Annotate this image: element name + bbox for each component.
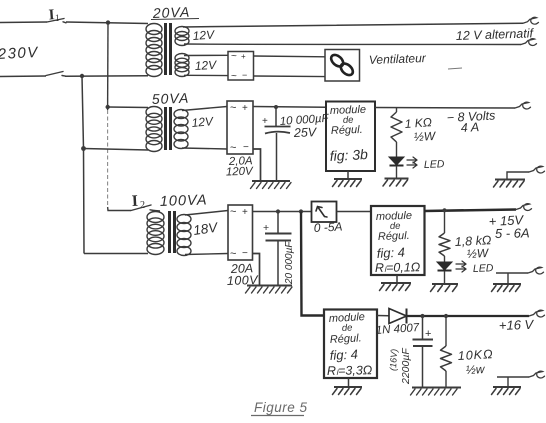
- resistor R2 lead top: [444, 211, 446, 234]
- transformer T3 core: [170, 211, 175, 253]
- svg-text:120V: 120V: [226, 166, 255, 179]
- wire B2 minus to ground: [253, 149, 261, 181]
- wire U1 output to terminal (row2 -8V rail): [375, 107, 515, 110]
- value label 1/2 W (R2): [466, 246, 490, 261]
- svg-text:½W: ½W: [466, 246, 490, 261]
- transformer T3 secondary winding (18V): [177, 215, 191, 256]
- wire T2 secondary to rectifier B2 top: [182, 107, 227, 111]
- svg-text:+: +: [262, 116, 268, 127]
- value label 2200uF (C3, rotated): [400, 348, 412, 385]
- bridge rectifier B2: [227, 101, 253, 154]
- switch I2: [131, 205, 154, 211]
- node junction bus1/row2: [81, 146, 86, 151]
- svg-text:4 A: 4 A: [460, 120, 479, 135]
- node junction L2/bus1: [80, 74, 84, 78]
- capacitor C3 (2200uF 16V): [413, 328, 434, 346]
- svg-text:½w: ½w: [465, 362, 486, 377]
- wire rail3 down to row4 module U3: [301, 212, 324, 316]
- capacitor C3 lead top: [422, 316, 424, 339]
- terminal chassis row4: [529, 371, 545, 378]
- module U3 (module de Regul. fig: 4 RL=3,3): [324, 310, 377, 379]
- value label 18V (T3): [192, 219, 220, 237]
- resistor R3 lead top: [445, 316, 447, 346]
- wire U2 to ground: [396, 275, 398, 283]
- svg-text:−: −: [242, 70, 247, 80]
- wire 12V AC line b (to right edge): [184, 43, 521, 46]
- LED D2 emission arrows: [407, 157, 417, 168]
- ground G6 (under U2): [380, 283, 412, 291]
- svg-text:Ventilateur: Ventilateur: [369, 51, 427, 67]
- ground G1 (under B2 and C1): [251, 181, 292, 189]
- svg-text:fig: 4: fig: 4: [376, 245, 405, 261]
- terminal -8V output: [515, 102, 531, 109]
- wire LED D3 to ground: [444, 271, 446, 284]
- LED D3: [437, 262, 452, 271]
- wire B2 plus to module U1 (row2 positive rail): [253, 106, 326, 109]
- value label 10KOhm (R3): [457, 347, 493, 363]
- wire bus from L1 down (x=108): [107, 23, 109, 110]
- svg-text:12V: 12V: [192, 27, 215, 43]
- capacitor C1 lead top: [275, 107, 277, 126]
- value label 1/2 W (R1): [413, 129, 437, 144]
- resistor R3 (10KOhm 1/2w): [441, 346, 452, 371]
- svg-text:Rₗ=3,3Ω: Rₗ=3,3Ω: [327, 363, 373, 378]
- terminal chassis row2: [529, 166, 545, 173]
- value label 12V (T1 S2): [194, 58, 217, 73]
- label Ventilateur: [369, 51, 462, 69]
- svg-text:½W: ½W: [413, 129, 437, 144]
- wire R3 to ground: [445, 371, 447, 387]
- module U2 (module de Regul. fig: 4 RL=0,1): [371, 206, 425, 275]
- value label 25V (C1): [293, 125, 318, 140]
- capacitor C1 (10 000uF 25V): [262, 116, 291, 134]
- wire T1 S2 to rectifier B1 (bottom): [184, 74, 228, 76]
- value label 1/2 w (R3): [465, 362, 486, 377]
- transformer T1 label 20VA: [151, 4, 199, 21]
- svg-text:~: ~: [230, 248, 236, 260]
- svg-text:2: 2: [140, 200, 145, 211]
- net label +15V: [488, 212, 524, 229]
- fan (ventilateur) M1: [325, 50, 360, 82]
- value label 1N 4007 (D1): [375, 322, 420, 337]
- node junction C3/rail4: [420, 314, 424, 318]
- switch I1 pole a: [47, 19, 66, 23]
- net label -8 Volts: [446, 108, 495, 125]
- wire B3 minus to ground: [253, 254, 260, 286]
- wire B1 to fan (top): [254, 55, 326, 58]
- ground G2 (under U1): [333, 179, 363, 187]
- terminal chassis row3: [528, 267, 544, 274]
- wire B3 plus to breaker (row3 rail): [253, 211, 312, 213]
- wire R2 to LED D3: [444, 256, 446, 262]
- capacitor C2 (20 000uF): [263, 222, 292, 241]
- svg-text:~: ~: [230, 206, 236, 218]
- ground G11 (row4 right): [492, 387, 522, 395]
- svg-text:Régul.: Régul.: [378, 230, 410, 243]
- wire mains line L1 (230V top, left segment): [0, 21, 47, 24]
- node junction C1/rail2: [274, 105, 278, 109]
- wire 12V AC line a (to right edge): [183, 23, 523, 27]
- transformer T3 primary winding: [147, 212, 164, 255]
- wire B1 to fan (bottom): [254, 75, 326, 78]
- svg-text:2200µF: 2200µF: [400, 348, 412, 385]
- capacitor C2 lead top: [277, 212, 279, 234]
- svg-text:Rₗ=0,1Ω: Rₗ=0,1Ω: [375, 260, 421, 275]
- wire U1 to ground: [347, 171, 349, 179]
- wire bus1 to T3 primary bottom: [84, 253, 148, 255]
- svg-text:5 - 6A: 5 - 6A: [495, 225, 530, 241]
- capacitor C2 lead bottom to ground: [277, 241, 279, 286]
- transformer T2 secondary winding (12V): [174, 110, 188, 149]
- transformer T1 secondary winding S2 (12V bottom): [175, 54, 189, 77]
- ground G8 (row3 right): [492, 284, 522, 292]
- transformer T1 secondary winding S1 (12V top): [175, 27, 189, 46]
- svg-text:Régul.: Régul.: [330, 332, 362, 346]
- resistor R2 (1,8 kOhm 1/2W): [439, 233, 450, 256]
- net label 12V alternatif: [456, 26, 535, 43]
- value label 100V (B3): [227, 273, 260, 288]
- label LED (D3): [473, 262, 494, 275]
- value label 20A (B3): [230, 261, 254, 276]
- transformer T2 primary winding: [146, 107, 162, 152]
- value label 120V (B2): [226, 166, 255, 179]
- wire mains line L2 (230V bottom, left segment): [0, 75, 46, 78]
- value label 1 KOhm (R1): [404, 115, 432, 131]
- svg-text:20 000µF: 20 000µF: [284, 241, 295, 285]
- wire D1 to terminal (+16V rail): [407, 315, 530, 317]
- svg-text:230V: 230V: [0, 44, 40, 63]
- wire bus2 to T2 primary top: [108, 106, 148, 109]
- svg-text:Régul.: Régul.: [331, 124, 363, 137]
- svg-text:fig: 4: fig: 4: [329, 347, 358, 363]
- svg-text:−: −: [243, 142, 249, 153]
- wire bus from L2 down (x=82): [82, 76, 84, 254]
- wire mains line L2 (after switch to T1): [65, 75, 148, 77]
- ground G4 (row2 right): [494, 180, 526, 188]
- value label 10 000uF (C1): [279, 113, 330, 128]
- value label 20 000uF (C2, rotated): [284, 241, 295, 285]
- breaker F1 (0-5A) box: [312, 202, 337, 223]
- wire switch I2 to T3 primary top: [154, 210, 160, 213]
- svg-text:Figure 5: Figure 5: [254, 400, 308, 415]
- resistor R1 lead top: [396, 108, 398, 112]
- value label 12V (T1 S1): [192, 27, 215, 43]
- transformer T2 core: [166, 107, 171, 150]
- wire T3 secondary to rectifier B3 bottom: [185, 254, 228, 255]
- svg-text:+: +: [242, 103, 248, 114]
- capacitor C3 lead bottom to ground: [422, 346, 424, 387]
- switch I1 pole b: [46, 72, 66, 77]
- svg-text:~: ~: [230, 142, 236, 154]
- svg-text:+16 V: +16 V: [499, 317, 535, 333]
- value label 0 -5A (F1): [313, 220, 342, 235]
- wire T1 S2 to rectifier B1 (top): [184, 54, 228, 56]
- wire bus2 to switch I2: [108, 207, 131, 211]
- ground G10 (under C3 and R3): [411, 388, 462, 396]
- LED D2: [389, 157, 404, 166]
- value label 16V (C3, rotated): [388, 349, 399, 372]
- wire U3 to ground: [348, 378, 350, 387]
- transformer T2 label 50VA: [152, 90, 190, 107]
- terminal +15V output: [516, 204, 532, 211]
- ground G9 (under U3): [333, 387, 363, 395]
- svg-text:~: ~: [230, 102, 236, 114]
- node junction R3/rail4: [444, 314, 448, 318]
- bridge rectifier B1: [228, 51, 254, 82]
- svg-text:12 V alternatif: 12 V alternatif: [456, 26, 535, 43]
- net label +16 V: [499, 317, 535, 333]
- label I2: [131, 193, 145, 211]
- svg-text:12V: 12V: [191, 114, 214, 130]
- node junction bus2/row2: [106, 105, 110, 109]
- svg-text:(16V): (16V): [388, 349, 399, 372]
- caption Figure 5: [251, 400, 308, 416]
- svg-text:+: +: [263, 222, 269, 234]
- ground G5 (under B3 and C2): [246, 286, 293, 294]
- svg-text:100VA: 100VA: [160, 192, 208, 210]
- transformer T3 label 100VA: [160, 192, 208, 210]
- value label 1,8 kOhm (R2): [454, 233, 492, 249]
- svg-text:−: −: [242, 248, 248, 259]
- wire R1 to LED D2: [396, 142, 398, 157]
- wire chassis terminal row3: [496, 273, 528, 284]
- terminal 12V AC a: [523, 17, 539, 24]
- svg-text:I: I: [131, 193, 138, 210]
- svg-text:~: ~: [231, 71, 237, 82]
- svg-text:+: +: [242, 207, 248, 218]
- net label 5-6A: [495, 225, 530, 241]
- ground G3 (under D2): [383, 179, 409, 187]
- bridge rectifier B3: [228, 205, 253, 260]
- label I1: [48, 7, 59, 23]
- LED D3 emission arrows: [456, 261, 466, 272]
- transformer T1 primary winding: [146, 24, 162, 77]
- svg-text:+: +: [241, 52, 246, 61]
- node junction C2/rail3: [276, 209, 280, 213]
- svg-text:LED: LED: [424, 158, 445, 171]
- node junction R2/rail3: [442, 208, 446, 212]
- module U1 (module de Regul. fig: 3b): [326, 102, 375, 172]
- node junction L1/bus2: [106, 20, 110, 24]
- wire U2 output to terminal (+15V rail, thick): [425, 210, 517, 212]
- svg-text:12V: 12V: [194, 58, 217, 73]
- terminal +16V output: [529, 310, 545, 317]
- label LED (D2): [424, 158, 445, 171]
- diode D1 (1N4007): [389, 309, 407, 324]
- wire chassis terminal row4: [497, 377, 529, 387]
- wire T3 secondary to rectifier B3 top: [185, 211, 228, 216]
- wire U3 output to diode D1: [377, 315, 389, 317]
- svg-text:+: +: [425, 328, 431, 340]
- svg-text:25V: 25V: [293, 125, 318, 140]
- wire breaker to module U2: [337, 211, 372, 213]
- label 230V: [0, 44, 40, 63]
- resistor R1 (1 KOhm 1/2W): [391, 112, 402, 142]
- ground G7 (under D3): [431, 284, 459, 292]
- wire mains line L1 (after switch to T1): [66, 22, 148, 24]
- capacitor C1 lead bottom to ground: [276, 133, 278, 181]
- transformer T1 core: [166, 23, 171, 75]
- svg-text:LED: LED: [473, 262, 494, 275]
- svg-text:0 -5A: 0 -5A: [313, 220, 342, 235]
- wire T2 secondary to rectifier B2 bottom: [182, 148, 227, 149]
- wire LED D2 to ground: [396, 166, 398, 179]
- svg-text:50VA: 50VA: [152, 90, 190, 107]
- svg-text:~: ~: [231, 51, 237, 62]
- node junction row4 feed/rail3: [299, 209, 303, 213]
- wire chassis terminal row2: [507, 172, 529, 180]
- terminal 12V AC b: [521, 39, 537, 46]
- net label 4 A: [460, 120, 479, 135]
- wire bus1 to T2 primary bottom: [84, 149, 149, 151]
- svg-text:fig: 3b: fig: 3b: [329, 146, 368, 164]
- value label 2,0A (B2): [228, 155, 253, 168]
- svg-text:1: 1: [55, 13, 60, 23]
- svg-text:10KΩ: 10KΩ: [457, 347, 493, 363]
- value label 12V (T2): [191, 114, 214, 130]
